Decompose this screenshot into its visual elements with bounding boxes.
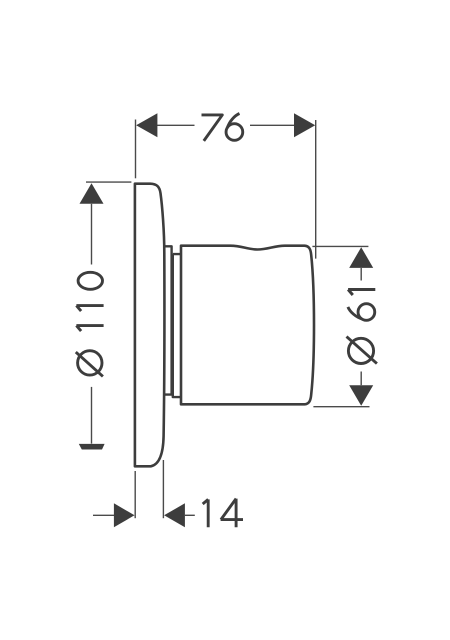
dimension Ø61: label "Ø 61" (rotated): [347, 290, 377, 364]
dimension 14: label "14": [203, 499, 243, 528]
dimension 14: right arrowhead (pointing left): [164, 503, 185, 527]
dimension 76: label "76": [202, 113, 243, 140]
dimension 76: dimension line right segment: [250, 124, 314, 126]
sleeve ring behind handle: [165, 246, 172, 394]
dimension Ø61: bottom extension line: [313, 406, 369, 408]
dimension Ø61: dimension line lower stub: [360, 372, 362, 386]
dimension 14: left tail line: [93, 514, 115, 516]
dimension Ø61: up arrowhead: [349, 247, 373, 268]
dimension 76: right arrowhead: [294, 113, 315, 137]
dimension Ø110: top extension line: [86, 181, 131, 183]
dimension 76: left extension line: [135, 120, 137, 179]
dimension 14: left arrowhead (pointing right): [114, 503, 135, 527]
dimension 14: right tail line: [185, 514, 195, 516]
recessed collar ring: [173, 254, 181, 397]
dimension Ø110: up arrowhead: [80, 183, 104, 204]
dimension 76: dimension line left segment: [137, 124, 195, 126]
dimension Ø110: label "Ø 110" (rotated): [76, 272, 104, 376]
dimension Ø110: dimension line upper segment: [91, 204, 93, 265]
handle body outline: [181, 246, 314, 405]
dimension Ø110: dimension line lower segment: [91, 387, 93, 444]
dimension 14: right extension line: [162, 460, 164, 518]
dimension 76: right extension line: [315, 120, 317, 259]
dimension Ø61: down arrowhead: [349, 385, 373, 406]
dimension Ø110: bottom foot terminator: [79, 444, 105, 450]
dimension 14: left extension line: [134, 471, 136, 518]
escutcheon plate outline (side view): [135, 184, 165, 467]
dimension Ø61: dimension line upper stub: [360, 268, 362, 281]
dimension Ø61: top extension line: [312, 245, 368, 247]
dimension 76: left arrowhead: [136, 113, 157, 137]
